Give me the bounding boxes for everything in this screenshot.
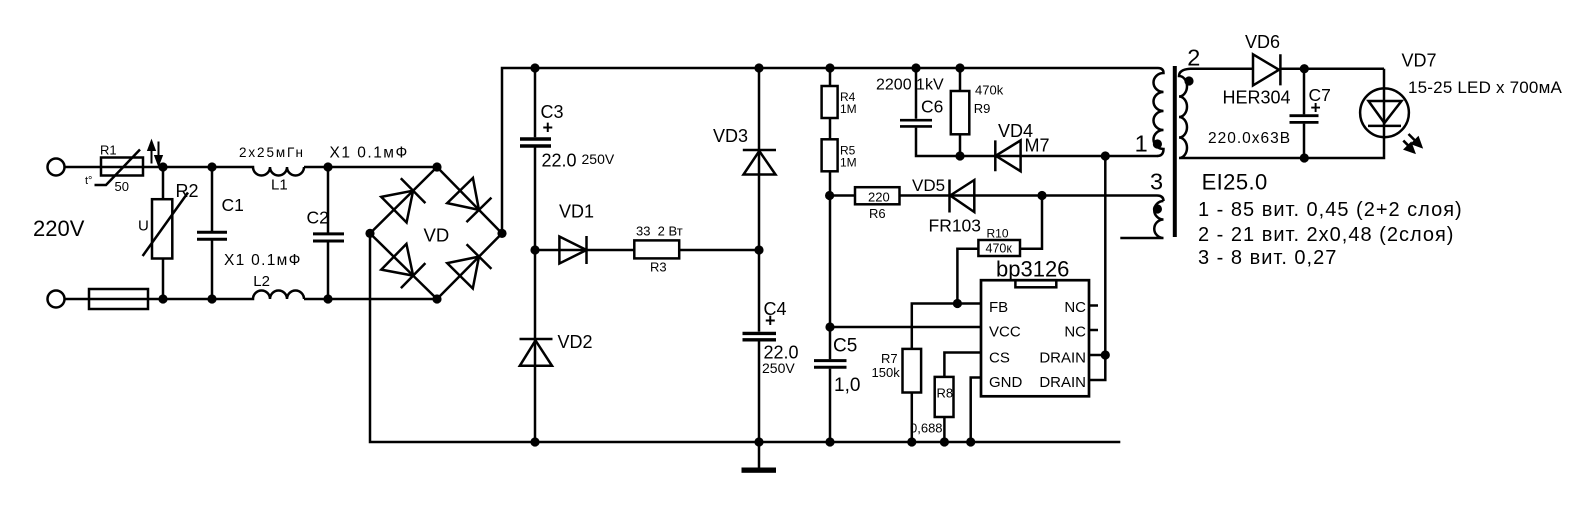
svg-text:220V: 220V <box>33 216 85 241</box>
svg-text:2200 1kV: 2200 1kV <box>876 77 944 94</box>
svg-text:150k: 150k <box>872 365 901 380</box>
svg-text:1 - 85 вит. 0,45 (2+2 слоя): 1 - 85 вит. 0,45 (2+2 слоя) <box>1198 199 1463 221</box>
svg-text:+: + <box>765 311 776 331</box>
svg-text:0,688: 0,688 <box>910 421 943 436</box>
svg-text:R6: R6 <box>869 206 886 221</box>
svg-text:470k: 470k <box>975 83 1004 98</box>
svg-text:NC: NC <box>1064 324 1086 341</box>
svg-text:3 - 8 вит. 0,27: 3 - 8 вит. 0,27 <box>1198 247 1337 269</box>
svg-text:R2: R2 <box>176 181 199 201</box>
svg-text:33 2 Вт: 33 2 Вт <box>636 224 683 239</box>
svg-text:C5: C5 <box>833 336 857 357</box>
svg-text:GND: GND <box>989 374 1023 391</box>
svg-text:+: + <box>1311 98 1321 118</box>
svg-text:t°: t° <box>85 175 92 187</box>
svg-text:250V: 250V <box>762 360 795 376</box>
svg-text:VD: VD <box>424 225 450 246</box>
svg-text:EI25.0: EI25.0 <box>1202 169 1268 194</box>
svg-text:DRAIN: DRAIN <box>1039 374 1086 391</box>
svg-text:15-25 LED x 700мА: 15-25 LED x 700мА <box>1408 78 1562 97</box>
svg-text:1: 1 <box>1135 130 1148 156</box>
svg-text:HER304: HER304 <box>1223 88 1291 108</box>
svg-text:C6: C6 <box>921 97 943 117</box>
svg-text:C1: C1 <box>222 195 244 215</box>
svg-text:NC: NC <box>1064 299 1086 316</box>
svg-text:U: U <box>138 218 149 235</box>
svg-text:470к: 470к <box>986 242 1013 256</box>
svg-text:FB: FB <box>989 299 1008 316</box>
svg-text:2 - 21 вит. 2х0,48 (2слоя): 2 - 21 вит. 2х0,48 (2слоя) <box>1198 224 1454 246</box>
svg-text:1,0: 1,0 <box>834 375 860 396</box>
svg-text:3: 3 <box>1150 168 1163 194</box>
svg-text:M7: M7 <box>1025 136 1050 156</box>
svg-text:R1: R1 <box>100 143 117 158</box>
svg-text:R3: R3 <box>650 260 667 275</box>
svg-text:FR103: FR103 <box>929 216 982 236</box>
svg-text:2: 2 <box>1187 44 1200 70</box>
svg-text:1M: 1M <box>840 102 857 116</box>
svg-text:VD3: VD3 <box>713 126 748 146</box>
svg-text:+: + <box>543 118 554 138</box>
svg-text:Х1 0.1мФ: Х1 0.1мФ <box>330 145 409 162</box>
svg-text:VD6: VD6 <box>1245 32 1280 52</box>
svg-text:VD7: VD7 <box>1402 51 1437 71</box>
svg-text:C2: C2 <box>307 207 329 227</box>
svg-text:VD1: VD1 <box>559 202 594 222</box>
svg-text:1M: 1M <box>840 156 857 170</box>
svg-text:2х25мГн: 2х25мГн <box>239 145 305 160</box>
svg-text:220.0х63В: 220.0х63В <box>1208 130 1291 147</box>
svg-text:bp3126: bp3126 <box>996 257 1069 282</box>
svg-text:VD5: VD5 <box>912 176 945 195</box>
svg-text:R8: R8 <box>937 386 954 401</box>
svg-text:VD2: VD2 <box>558 332 593 352</box>
svg-text:R7: R7 <box>881 351 898 366</box>
svg-text:L1: L1 <box>271 177 288 194</box>
svg-text:DRAIN: DRAIN <box>1039 350 1086 367</box>
svg-text:22.0: 22.0 <box>542 151 577 171</box>
svg-text:CS: CS <box>989 350 1010 367</box>
svg-text:220: 220 <box>868 189 890 204</box>
svg-text:R9: R9 <box>974 101 991 116</box>
svg-text:R10: R10 <box>987 226 1009 240</box>
svg-text:Х1 0.1мФ: Х1 0.1мФ <box>224 252 302 269</box>
svg-text:250V: 250V <box>582 151 615 167</box>
svg-text:50: 50 <box>115 179 129 194</box>
svg-text:L2: L2 <box>253 273 270 290</box>
svg-text:VCC: VCC <box>989 324 1021 341</box>
